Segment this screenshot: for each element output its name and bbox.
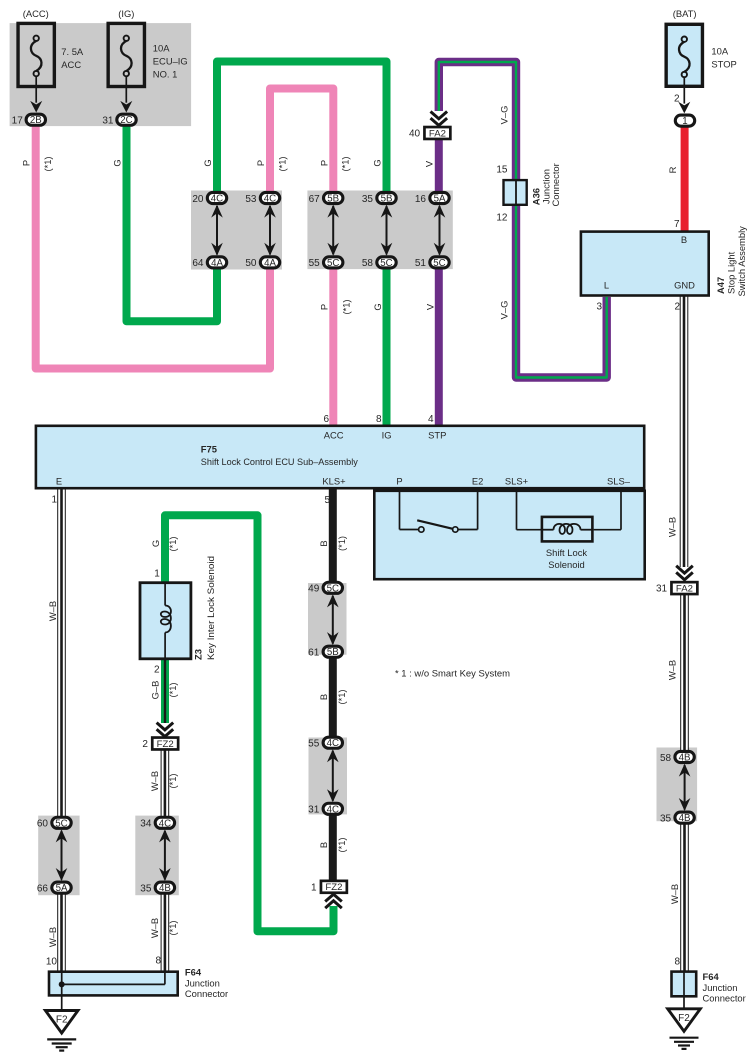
svg-text:60: 60 — [37, 819, 49, 830]
svg-text:W–B: W–B — [666, 660, 677, 680]
svg-text:G: G — [372, 303, 383, 310]
svg-text:P: P — [255, 160, 266, 166]
svg-text:V: V — [424, 160, 435, 167]
svg-text:Solenoid: Solenoid — [548, 559, 585, 570]
svg-text:Shift Lock: Shift Lock — [546, 547, 587, 558]
svg-text:FZ2: FZ2 — [157, 739, 174, 750]
svg-text:(*1): (*1) — [336, 536, 347, 551]
svg-text:10: 10 — [46, 957, 58, 968]
svg-text:40: 40 — [409, 129, 421, 140]
svg-text:B: B — [318, 694, 329, 700]
svg-text:6: 6 — [323, 414, 329, 425]
svg-text:67: 67 — [309, 194, 321, 205]
svg-text:5A: 5A — [56, 883, 68, 894]
svg-text:(BAT): (BAT) — [673, 8, 697, 19]
svg-text:IG: IG — [382, 430, 392, 441]
svg-text:5: 5 — [324, 495, 330, 506]
svg-text:5C: 5C — [327, 583, 339, 594]
svg-text:34: 34 — [140, 819, 152, 830]
svg-text:GND: GND — [674, 280, 695, 291]
svg-text:W–B: W–B — [669, 884, 680, 904]
svg-text:2B: 2B — [30, 115, 42, 126]
svg-text:10A: 10A — [711, 46, 728, 57]
svg-text:SLS–: SLS– — [607, 475, 631, 486]
svg-text:2: 2 — [154, 665, 160, 676]
svg-text:STP: STP — [428, 430, 446, 441]
svg-text:3: 3 — [596, 302, 602, 313]
svg-text:KLS+: KLS+ — [322, 475, 346, 486]
svg-text:NO. 1: NO. 1 — [153, 69, 178, 80]
svg-text:SLS+: SLS+ — [505, 475, 529, 486]
svg-text:W–B: W–B — [149, 918, 160, 938]
svg-text:61: 61 — [308, 648, 320, 659]
svg-text:5C: 5C — [327, 258, 339, 269]
svg-text:(*1): (*1) — [167, 920, 178, 935]
svg-text:Junction: Junction — [185, 978, 220, 989]
svg-text:V–G: V–G — [498, 106, 509, 125]
svg-text:F2: F2 — [678, 1013, 690, 1024]
svg-text:15: 15 — [496, 165, 508, 176]
svg-text:V: V — [424, 303, 435, 310]
svg-text:F64: F64 — [185, 967, 202, 978]
svg-text:1: 1 — [51, 495, 57, 506]
svg-text:16: 16 — [415, 194, 427, 205]
svg-text:5C: 5C — [55, 818, 67, 829]
svg-text:4A: 4A — [264, 258, 276, 269]
svg-text:5B: 5B — [381, 194, 393, 205]
svg-text:35: 35 — [660, 813, 672, 824]
svg-text:31: 31 — [656, 584, 668, 595]
svg-text:4C: 4C — [327, 804, 339, 815]
svg-text:2: 2 — [674, 93, 680, 104]
svg-text:P: P — [318, 304, 329, 310]
svg-text:35: 35 — [140, 883, 152, 894]
svg-text:(*1): (*1) — [336, 689, 347, 704]
svg-text:4: 4 — [428, 414, 434, 425]
svg-text:(*1): (*1) — [336, 837, 347, 852]
svg-text:8: 8 — [376, 414, 382, 425]
svg-text:FA2: FA2 — [429, 128, 446, 139]
svg-text:W–B: W–B — [47, 927, 58, 947]
svg-text:8: 8 — [155, 956, 161, 967]
svg-text:G: G — [371, 159, 382, 166]
svg-text:B: B — [318, 540, 329, 546]
svg-text:W–B: W–B — [666, 517, 677, 537]
svg-text:20: 20 — [192, 194, 204, 205]
svg-text:58: 58 — [362, 258, 374, 269]
svg-text:P: P — [318, 160, 329, 166]
svg-text:(*1): (*1) — [167, 773, 178, 788]
svg-text:5A: 5A — [434, 194, 446, 205]
svg-text:F64: F64 — [703, 971, 720, 982]
svg-text:31: 31 — [102, 116, 114, 127]
svg-text:A47: A47 — [715, 277, 726, 294]
svg-text:ACC: ACC — [61, 59, 81, 70]
svg-text:64: 64 — [192, 258, 204, 269]
svg-text:31: 31 — [308, 805, 320, 816]
svg-text:2: 2 — [674, 302, 680, 313]
svg-text:53: 53 — [245, 194, 257, 205]
svg-text:2C: 2C — [120, 115, 132, 126]
svg-text:55: 55 — [308, 739, 320, 750]
svg-text:66: 66 — [37, 883, 49, 894]
svg-text:Connector: Connector — [703, 993, 746, 1004]
svg-text:4A: 4A — [211, 258, 223, 269]
svg-text:Switch Assembly: Switch Assembly — [736, 226, 747, 297]
svg-text:8: 8 — [674, 957, 680, 968]
svg-text:ACC: ACC — [324, 430, 344, 441]
svg-text:W–B: W–B — [149, 771, 160, 791]
svg-text:7. 5A: 7. 5A — [61, 46, 84, 57]
svg-text:(*1): (*1) — [340, 156, 351, 171]
svg-text:5C: 5C — [433, 258, 445, 269]
svg-text:B: B — [681, 234, 687, 245]
svg-text:Key Inter Lock Solenoid: Key Inter Lock Solenoid — [205, 556, 216, 660]
svg-text:4C: 4C — [264, 194, 276, 205]
svg-text:Connector: Connector — [550, 163, 561, 206]
svg-text:STOP: STOP — [711, 59, 736, 70]
svg-text:35: 35 — [362, 194, 374, 205]
svg-text:10A: 10A — [153, 43, 170, 54]
svg-text:4B: 4B — [159, 883, 171, 894]
svg-text:Shift Lock Control ECU Sub–Ass: Shift Lock Control ECU Sub–Assembly — [201, 456, 358, 467]
svg-text:B: B — [318, 842, 329, 848]
svg-text:1: 1 — [154, 569, 160, 580]
svg-text:17: 17 — [12, 116, 24, 127]
svg-text:2: 2 — [142, 739, 148, 750]
svg-text:P: P — [20, 160, 31, 166]
svg-text:4C: 4C — [211, 194, 223, 205]
svg-text:4C: 4C — [327, 738, 339, 749]
svg-text:7: 7 — [674, 219, 680, 230]
svg-text:(*1): (*1) — [167, 682, 178, 697]
svg-text:L: L — [604, 280, 609, 291]
svg-text:51: 51 — [415, 258, 427, 269]
svg-text:(*1): (*1) — [167, 536, 178, 551]
svg-text:E2: E2 — [472, 475, 483, 486]
svg-text:Stop Light: Stop Light — [726, 251, 737, 294]
svg-text:55: 55 — [309, 258, 321, 269]
svg-text:1: 1 — [311, 882, 317, 893]
svg-text:4B: 4B — [679, 813, 691, 824]
svg-text:Z3: Z3 — [193, 649, 204, 660]
svg-text:(*1): (*1) — [276, 156, 287, 171]
svg-text:W–B: W–B — [47, 601, 58, 621]
svg-text:58: 58 — [660, 753, 672, 764]
svg-text:G–B: G–B — [149, 681, 160, 700]
svg-text:4C: 4C — [159, 818, 171, 829]
svg-text:Connector: Connector — [185, 988, 228, 999]
svg-text:12: 12 — [496, 213, 508, 224]
svg-text:E: E — [56, 475, 62, 486]
svg-text:4B: 4B — [679, 753, 691, 764]
svg-text:5C: 5C — [380, 258, 392, 269]
svg-text:F75: F75 — [201, 443, 217, 454]
svg-text:FA2: FA2 — [676, 583, 693, 594]
svg-text:R: R — [667, 166, 678, 173]
svg-text:ECU–IG: ECU–IG — [153, 56, 188, 67]
svg-text:V–G: V–G — [498, 301, 509, 320]
svg-text:G: G — [111, 159, 122, 166]
svg-text:G: G — [150, 540, 161, 547]
svg-text:5B: 5B — [327, 647, 339, 658]
svg-text:(*1): (*1) — [42, 156, 53, 171]
svg-text:G: G — [202, 159, 213, 166]
svg-text:(IG): (IG) — [118, 8, 134, 19]
svg-text:F2: F2 — [56, 1015, 68, 1026]
svg-text:1: 1 — [682, 116, 687, 127]
svg-text:50: 50 — [245, 258, 257, 269]
svg-text:5B: 5B — [327, 194, 339, 205]
svg-text:(ACC): (ACC) — [23, 8, 49, 19]
svg-text:P: P — [396, 475, 402, 486]
svg-text:FZ2: FZ2 — [325, 882, 342, 893]
svg-text:49: 49 — [308, 584, 320, 595]
svg-text:(*1): (*1) — [340, 299, 351, 314]
svg-text:* 1 : w/o Smart Key System: * 1 : w/o Smart Key System — [395, 668, 510, 679]
svg-text:Junction: Junction — [703, 982, 738, 993]
